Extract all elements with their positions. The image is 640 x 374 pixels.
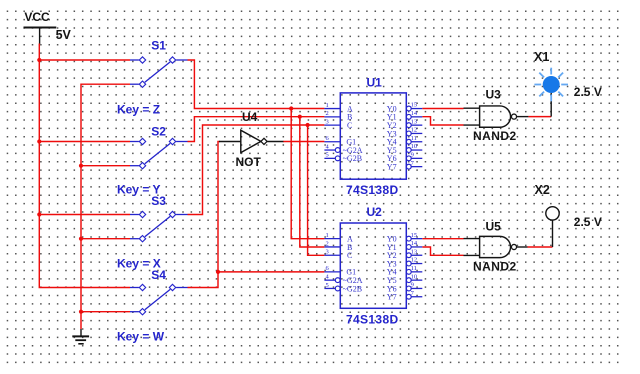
NAND2 gate U3 — [464, 106, 529, 127]
74S138D decoder U1 — [324, 93, 422, 179]
probe X1 lead — [550, 93, 552, 117]
wire node W to U2 pin G1 — [218, 271, 324, 273]
svg-text:1: 1 — [326, 232, 329, 239]
wire VCC bus vertical — [39, 44, 130, 288]
wire VCC to S2 top throw — [39, 141, 130, 143]
wire U1 Y0 to U3 input A — [422, 108, 463, 110]
svg-text:U1: U1 — [367, 75, 383, 89]
svg-text:13: 13 — [411, 248, 418, 255]
wire U4 output to U1 pin G1 — [283, 141, 324, 143]
svg-text:9: 9 — [411, 151, 414, 158]
wire net S2 common to U1 pin B — [188, 117, 325, 142]
U1 pin name labels — [343, 104, 397, 171]
svg-text:VCC: VCC — [24, 10, 50, 24]
svg-text:74S138D: 74S138D — [346, 183, 399, 197]
svg-text:Key = Z: Key = Z — [117, 102, 160, 116]
svg-text:10: 10 — [411, 143, 418, 150]
wire VCC to S1 top throw — [39, 59, 130, 61]
junction VCC-S3 — [37, 212, 41, 216]
svg-text:U4: U4 — [242, 110, 258, 124]
svg-text:15: 15 — [411, 102, 418, 109]
svg-text:14: 14 — [411, 110, 418, 117]
wire node C to U2 pin C — [308, 125, 325, 255]
junction VCC-S1 — [37, 58, 41, 62]
junction node C branch — [306, 123, 310, 127]
probe X2 (lamp off) — [546, 207, 559, 220]
svg-text:X1: X1 — [534, 50, 549, 64]
NAND2 gate U5 — [464, 236, 528, 257]
wire net S3 common to U1 pin C — [188, 125, 325, 215]
svg-text:C: C — [347, 121, 352, 130]
wire GND to S2 bottom throw — [81, 165, 130, 167]
svg-text:13: 13 — [411, 118, 418, 125]
svg-text:Y7: Y7 — [387, 162, 397, 171]
wire net S4 common to U4 input — [188, 142, 220, 288]
svg-text:S1: S1 — [151, 38, 166, 52]
svg-text:15: 15 — [411, 232, 418, 239]
junction node A branch — [289, 106, 293, 110]
svg-text:10: 10 — [411, 273, 418, 280]
probe X1 (lit lamp) — [534, 68, 568, 102]
probe X2 lead — [552, 220, 554, 247]
svg-text:11: 11 — [411, 265, 417, 272]
wire U2 Y0 to U5 input A — [422, 238, 463, 240]
svg-text:Key = W: Key = W — [117, 330, 165, 344]
svg-text:X2: X2 — [535, 183, 550, 197]
svg-text:11: 11 — [411, 135, 417, 142]
svg-text:9: 9 — [411, 282, 414, 289]
wire U3 output to X1 — [528, 116, 551, 118]
svg-text:~G2B: ~G2B — [343, 154, 362, 163]
power VCC — [24, 28, 57, 45]
wire GND to S3 bottom throw — [81, 238, 130, 240]
svg-text:S3: S3 — [151, 194, 166, 208]
U2 pin numbers — [326, 232, 418, 297]
svg-text:12: 12 — [411, 127, 418, 134]
svg-text:2: 2 — [326, 110, 329, 117]
svg-text:NAND2: NAND2 — [473, 260, 517, 274]
svg-text:12: 12 — [411, 257, 418, 264]
svg-text:NOT: NOT — [236, 155, 262, 169]
junction GND-S4 — [79, 310, 83, 314]
svg-text:U3: U3 — [486, 87, 502, 101]
svg-text:Y7: Y7 — [387, 293, 397, 302]
junction GND-S3 — [79, 237, 83, 241]
wire U1 Y1 to U3 input B — [422, 117, 463, 125]
svg-text:3: 3 — [326, 249, 329, 256]
svg-text:U2: U2 — [367, 205, 383, 219]
junction node B branch — [298, 115, 302, 119]
switch S3 — [130, 211, 188, 242]
U1 pin numbers — [326, 102, 418, 167]
junction node W branch — [216, 270, 220, 274]
wire net S1 common to U1 pin A — [188, 60, 325, 109]
svg-text:2.5 V: 2.5 V — [574, 85, 602, 99]
svg-text:NAND2: NAND2 — [473, 129, 517, 143]
wire GND to S4 bottom throw — [81, 311, 130, 313]
wire VCC to S3 top throw — [39, 214, 130, 216]
svg-text:14: 14 — [411, 240, 418, 247]
svg-text:2: 2 — [326, 240, 329, 247]
U2 pin name labels — [343, 234, 397, 301]
svg-text:~G2B: ~G2B — [343, 284, 362, 293]
svg-text:S4: S4 — [151, 268, 166, 282]
switch S4 — [130, 284, 188, 315]
svg-text:C: C — [347, 251, 352, 260]
NOT gate U4 — [219, 130, 283, 152]
wire GND bus vertical — [81, 84, 130, 329]
svg-text:3: 3 — [326, 118, 329, 125]
svg-text:74S138D: 74S138D — [346, 312, 399, 326]
74S138D decoder U2 — [324, 223, 422, 308]
wire U2 Y1 to U5 input B — [422, 247, 463, 255]
svg-text:5: 5 — [326, 282, 329, 289]
svg-text:5V: 5V — [56, 28, 72, 42]
svg-text:S2: S2 — [151, 124, 166, 138]
wire node A to U2 pin A — [291, 109, 324, 239]
switch S1 — [130, 57, 188, 88]
svg-text:5: 5 — [326, 152, 329, 159]
wire U5 output to X2 — [528, 246, 553, 248]
svg-text:U5: U5 — [486, 220, 502, 234]
junction VCC-S2 — [37, 139, 41, 143]
ground — [72, 329, 89, 344]
junction GND-S2 — [79, 164, 83, 168]
svg-text:2.5 V: 2.5 V — [574, 215, 602, 229]
switch S2 — [130, 138, 188, 169]
wire node B to U2 pin B — [300, 117, 325, 247]
svg-text:1: 1 — [326, 102, 329, 109]
